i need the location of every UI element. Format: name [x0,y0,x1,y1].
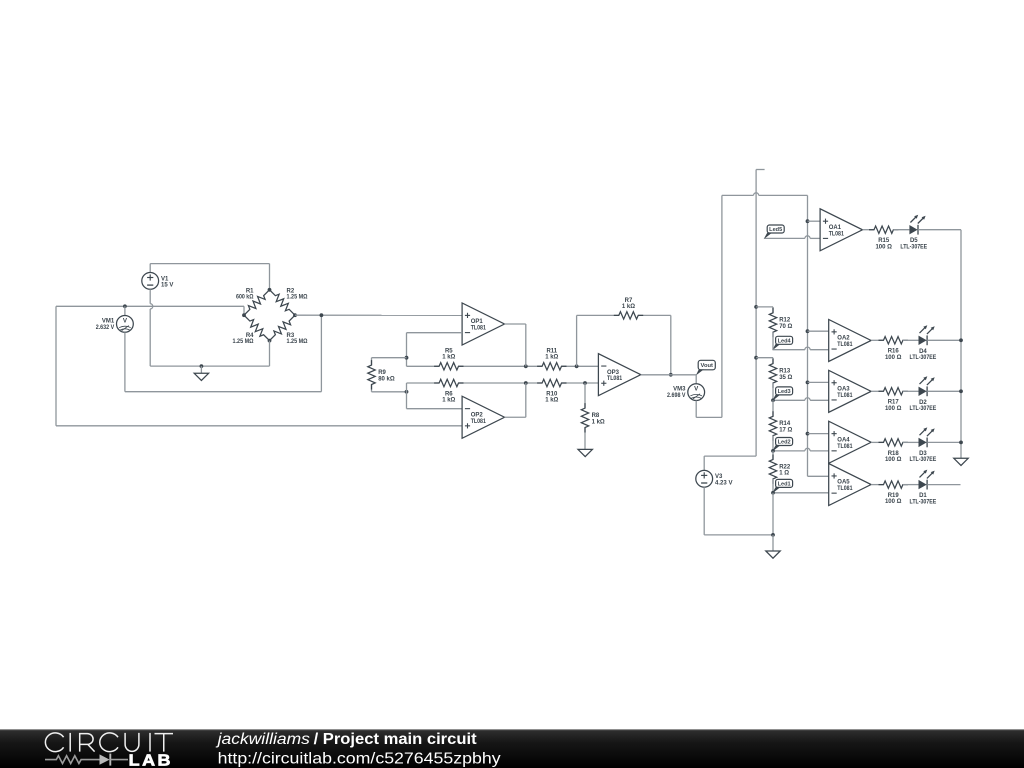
svg-text:D1: D1 [919,493,927,499]
wire OA4 + stub [808,433,829,435]
svg-text:100 Ω: 100 Ω [885,499,902,505]
wire OA4 output lead [871,441,883,443]
junction R7 left tap [575,364,579,368]
ground (V3) [766,551,780,558]
wire OA1 + stub [808,220,821,222]
op-amp OP2 [462,396,504,438]
wire D2 to right bus [927,390,961,392]
wire bridge output down [320,315,322,392]
svg-text:TL081: TL081 [837,486,853,492]
svg-text:R17: R17 [888,400,900,406]
wire R22 bottom lead [772,479,774,493]
wire V3+ rail vertical [755,170,757,457]
wire R8 bottom lead [584,428,586,450]
wire Led5 to OA1 - [765,236,821,239]
svg-text:70 Ω: 70 Ω [779,324,792,330]
resistor R12 70 Ω [769,308,792,337]
wire R9 top segment [371,358,373,365]
wire Led4 to OA2 - [773,347,829,350]
wire Led2 to OA4 - [773,448,829,451]
op-amp OP1 [462,303,504,345]
wire to OP2 + input [56,425,462,427]
junction V3- ground node [771,533,775,537]
svg-text:1.25 MΩ: 1.25 MΩ [233,339,254,345]
ground (bridge) [194,373,208,380]
wire ground stem [200,366,202,373]
svg-text:35 Ω: 35 Ω [779,375,792,381]
junction Led2 node [771,449,775,453]
svg-text:VM3: VM3 [673,387,686,393]
junction Led1 node [771,491,775,495]
wire OA3 + stub [808,381,829,383]
wire Led3 to OA3 - [773,398,829,401]
svg-text:80 kΩ: 80 kΩ [378,376,395,382]
resistor R16 100 Ω [879,337,908,361]
LED D1 LTL-307EE [910,470,937,506]
wire D4 to right bus [927,339,961,341]
svg-text:Led1: Led1 [778,481,791,487]
node bridge top [268,288,272,292]
wire R7 left vertical [576,315,578,366]
wire R9 bottom stub [372,391,407,393]
wire R10 to OP3 + [561,382,598,384]
svg-text:4.23 V: 4.23 V [715,481,733,487]
svg-text:100 Ω: 100 Ω [885,406,902,412]
svg-text:TL081: TL081 [837,393,853,399]
label R4 1.25 MΩ [233,333,255,345]
wire R19 to D1 [903,484,919,486]
svg-text:R12: R12 [779,318,791,324]
svg-text:LTL-307EE: LTL-307EE [910,406,937,412]
svg-text:OP2: OP2 [471,412,484,418]
svg-text:1 kΩ: 1 kΩ [545,355,558,361]
svg-text:D5: D5 [910,238,918,244]
svg-text:http://circuitlab.com/c5276455: http://circuitlab.com/c5276455zpbhy [218,750,501,767]
wire V3+ horizontal [704,455,756,457]
voltage source V3 [696,470,733,487]
wire R7 to output leg [638,314,671,316]
svg-text:R16: R16 [888,349,900,355]
wire OA3 output lead [871,390,883,392]
node bridge right [293,313,297,317]
resistor R11 1 kΩ [537,349,566,370]
svg-text:OA4: OA4 [837,437,850,443]
wire OA5 output lead [871,484,883,486]
wire R12 top lead [772,307,774,313]
svg-text:17 Ω: 17 Ω [779,428,792,434]
svg-text:/ Project main circuit: / Project main circuit [314,731,477,748]
svg-text:1 kΩ: 1 kΩ [592,419,605,425]
svg-text:R19: R19 [888,493,900,499]
voltmeter VM1 [96,316,134,333]
wire Led1 node down [772,493,774,535]
wire R12 top stub [756,306,773,308]
resistor R22 1 Ω [769,455,791,484]
voltmeter VM3 [667,384,705,401]
wire node A horizontal [56,305,244,307]
svg-text:LAB: LAB [129,752,173,768]
svg-text:1.25 MΩ: 1.25 MΩ [287,294,308,300]
wire R13 top stub [756,357,773,359]
net flag Led2 [772,438,793,452]
node bridge bottom [268,339,272,343]
svg-text:R14: R14 [779,421,791,427]
svg-text:OA3: OA3 [837,386,850,392]
svg-text:R15: R15 [878,238,890,244]
wire OP2 - vertical [406,383,408,409]
svg-text:100 Ω: 100 Ω [875,244,892,250]
wire OA2 output lead [871,339,883,341]
net flag Vout [696,360,716,375]
svg-text:D4: D4 [919,349,927,355]
title text jackwilliams / Project main circuit [215,731,476,748]
svg-text:LTL-307EE: LTL-307EE [900,244,927,250]
wire R5 to R11 [458,365,542,367]
svg-text:600 kΩ: 600 kΩ [236,294,254,300]
svg-text:TL081: TL081 [471,419,487,425]
resistor R15 100 Ω [869,226,898,250]
wire VM3 return bus [721,195,723,417]
wire V1- bottom rail [150,365,269,367]
wire R9 bottom segment [371,385,373,392]
wire ground stem [772,535,774,551]
svg-text:V3: V3 [715,474,723,480]
svg-text:2.632 V: 2.632 V [96,325,115,331]
svg-text:Led5: Led5 [769,227,782,233]
logo resistor-diode doodle [45,754,128,766]
svg-text:R10: R10 [546,391,558,397]
resistor R10 1 kΩ [537,379,566,403]
resistor R1 (bridge top-left) [244,290,270,315]
resistor R7 1 kΩ [614,298,643,319]
junction D4 bus [959,338,963,342]
svg-text:LTL-307EE: LTL-307EE [910,457,937,463]
wire V3 top lead [703,456,705,470]
wire to R5 [407,365,440,367]
wire V1+ to bridge top [150,263,269,265]
ground (right LED bus) [954,458,968,465]
junction OA4 + tap [806,432,810,436]
wire R8 top lead [584,383,586,408]
wire OP1 - input [407,332,463,334]
junction OA3 + tap [806,381,810,385]
wire down to bridge top vertex [269,264,271,290]
wire bridge bottom lead [269,341,271,367]
net flag Led3 [772,387,793,401]
wire V3 bottom lead [703,487,705,535]
resistor R18 100 Ω [879,439,908,463]
wire R14 top lead [772,400,774,416]
junction OP3 output feedback [669,373,673,377]
svg-text:R6: R6 [445,391,453,397]
wire R13 bottom lead [772,383,774,400]
junction R9 top [405,356,409,360]
wire OP2 output up [525,383,527,417]
svg-text:OP1: OP1 [471,319,484,325]
svg-text:Vout: Vout [701,363,714,369]
wire R18 to D3 [903,441,919,443]
svg-text:jackwilliams: jackwilliams [215,731,310,748]
svg-text:1 kΩ: 1 kΩ [622,304,635,310]
junction R13 rail tap [754,356,758,360]
wire R12 bottom lead [772,332,774,350]
resistor R8 1 kΩ [581,403,605,432]
svg-text:R22: R22 [779,464,791,470]
wire R14 bottom lead [772,436,774,451]
wire OA5 + stub [808,475,829,477]
label R1 600 kΩ [236,288,254,300]
label R3 1.25 MΩ [287,333,308,345]
svg-text:1 kΩ: 1 kΩ [442,398,455,404]
LED D2 LTL-307EE [910,376,937,412]
wire top horizontal to comparator bus [722,193,808,196]
wire V1 bottom lead [150,289,153,366]
svg-text:TL081: TL081 [837,444,853,450]
resistor R2 (bridge top-right) [270,290,296,315]
wire VM3 bottom lead [695,401,697,418]
ground (R8) [578,449,592,456]
wire OP1 output down [525,324,527,366]
svg-text:D2: D2 [919,400,927,406]
wire OP1 output [505,323,526,325]
wire OA2 + stub [808,330,829,332]
junction D3 bus [959,441,963,445]
junction R9 bottom [405,390,409,394]
wire V3- horizontal [704,534,773,536]
wire R9 top stub [372,357,407,359]
LED D4 LTL-307EE [910,325,937,361]
svg-text:R9: R9 [378,370,386,376]
svg-text:LTL-307EE: LTL-307EE [910,355,937,361]
svg-text:1 kΩ: 1 kΩ [545,398,558,404]
junction OP2 output feedback [524,381,528,385]
wire to R6 [407,382,440,384]
LED D3 LTL-307EE [910,427,937,463]
svg-text:TL081: TL081 [471,326,487,332]
wire D1 dangling [927,484,960,486]
wire bridge right to OP1 + [295,314,462,316]
wire to R7 [577,314,619,316]
net flag Led1 [772,479,793,493]
wire comparator + bus [807,195,809,476]
op-amp OA2 [829,319,871,361]
wire Led1 to OA5 - [773,492,829,494]
svg-text:15 V: 15 V [161,283,173,289]
svg-text:R8: R8 [592,413,600,419]
resistor R19 100 Ω [879,481,908,505]
wire OP1 - vertical [406,333,408,367]
svg-text:Led2: Led2 [778,440,791,446]
svg-text:OA2: OA2 [837,336,850,342]
junction OA1 + tap [806,219,810,223]
wire R6 to R10 [458,382,542,384]
wire OA1 output lead [863,229,875,231]
resistor R9 80 kΩ [368,360,395,389]
svg-text:D3: D3 [919,451,927,457]
wire top stub tick [756,169,765,171]
resistor R6 1 kΩ [434,379,463,403]
junction OP1 output feedback [524,364,528,368]
svg-text:R18: R18 [888,451,900,457]
wire R16 to D4 [903,339,919,341]
junction R8 tap [583,381,587,385]
resistor R14 17 Ω [769,411,792,440]
label R2 1.25 MΩ [287,288,308,300]
net flag Led4 [772,336,793,350]
svg-text:TL081: TL081 [837,342,853,348]
svg-text:2.698 V: 2.698 V [667,393,686,399]
voltage source V1 [142,273,174,290]
svg-text:Led3: Led3 [778,389,791,395]
svg-text:OA1: OA1 [829,225,842,231]
svg-text:1 kΩ: 1 kΩ [442,355,455,361]
wire VM3 top lead [695,375,697,384]
CircuitLab logo text CIRCUIT [45,733,173,752]
resistor R13 35 Ω [769,359,792,388]
wire VM3 bottom horizontal [696,416,722,418]
wire R13 top lead [772,358,774,364]
junction OA2 + tap [806,329,810,333]
wire VM1 bottom lead [124,332,126,391]
wire OP2 - input [407,408,463,410]
resistor R17 100 Ω [879,388,908,412]
junction R12 rail tap [754,305,758,309]
svg-text:R13: R13 [779,368,791,374]
wire VM1 bottom horizontal [125,391,322,393]
resistor R5 1 kΩ [434,349,463,370]
wire into bridge left vertex [243,306,245,315]
op-amp OA4 [829,421,871,463]
svg-text:TL081: TL081 [829,231,845,237]
svg-text:1.25 MΩ: 1.25 MΩ [287,339,308,345]
wire D3 to right bus [927,441,961,443]
junction bridge output [320,313,324,317]
svg-text:Led4: Led4 [778,338,792,344]
junction ground tap [200,364,204,368]
junction VM1 top tap [123,304,127,308]
wire R22 top lead [772,451,774,460]
svg-text:LTL-307EE: LTL-307EE [910,499,937,505]
svg-text:1 Ω: 1 Ω [779,471,789,477]
node bridge left [242,313,246,317]
resistor R4 (bridge bottom-left) [244,315,270,340]
resistor R3 (bridge bottom-right) [270,315,296,340]
bottom branding bar [0,729,1024,768]
op-amp OA3 [829,370,871,412]
wire OP2 output [505,416,526,418]
svg-text:100 Ω: 100 Ω [885,457,902,463]
op-amp OA1 [820,209,862,251]
net flag Led5 [764,225,785,239]
svg-text:OP3: OP3 [607,370,620,376]
wire D5 to right bus [918,229,961,231]
svg-text:OA5: OA5 [837,480,850,486]
svg-text:V1: V1 [161,276,169,282]
svg-text:VM1: VM1 [102,319,115,325]
wire OP3 output [641,374,696,376]
wire V1 top lead [149,264,151,273]
wire R17 to D2 [903,390,919,392]
junction Led3 node [771,398,775,402]
wire R7 right vertical [670,315,672,374]
svg-text:100 Ω: 100 Ω [885,355,902,361]
wire right LED bus [960,230,962,459]
wire left vertical [55,306,57,426]
op-amp OA5 [829,464,871,506]
op-amp OP3 [598,354,640,396]
wire R11 to OP3 - [561,365,598,367]
junction D2 bus [959,389,963,393]
svg-text:TL081: TL081 [607,376,623,382]
LED D5 LTL-307EE [900,215,927,251]
wire VM1 top lead [124,306,126,315]
wire R15 to D5 [893,229,909,231]
